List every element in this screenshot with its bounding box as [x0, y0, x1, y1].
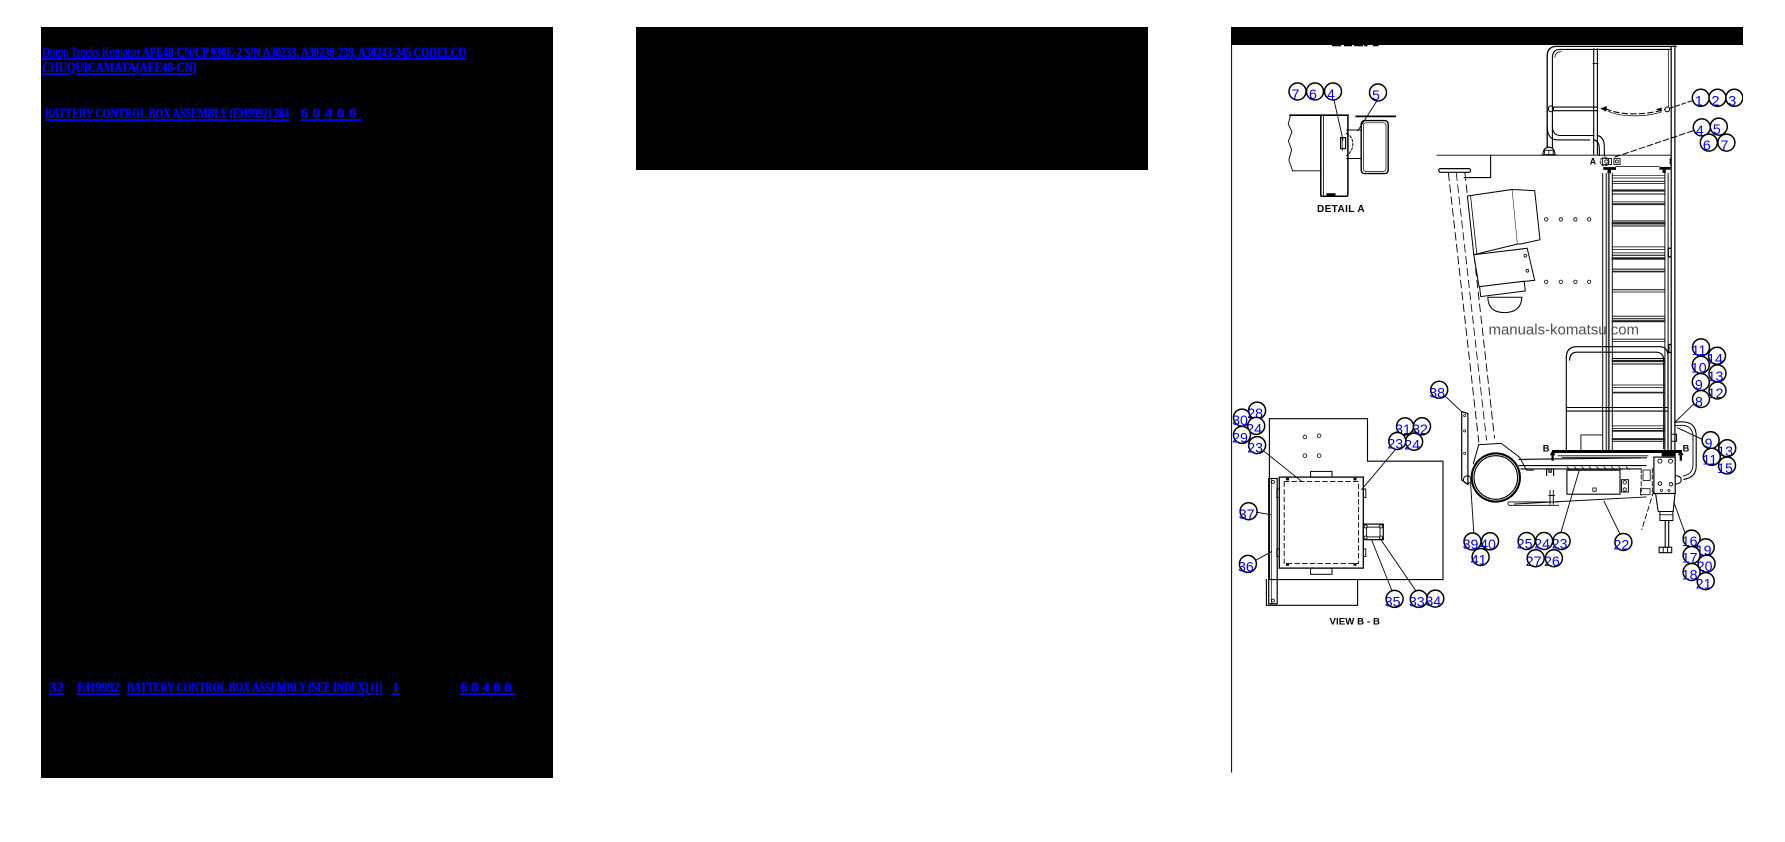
lower short beam [1509, 502, 1559, 505]
svg-text:22: 22 [1614, 538, 1630, 554]
A callout [1600, 157, 1609, 166]
balloon 18 [1682, 564, 1700, 584]
balloon 19 [1696, 539, 1714, 559]
balloon 8 [1693, 391, 1710, 411]
leader 35 [1372, 540, 1393, 591]
balloon 2 [1709, 89, 1726, 109]
deck line [1437, 154, 1671, 156]
box side clips [1277, 489, 1280, 557]
leader dashed from balloon 4 to detail A position [1614, 131, 1692, 157]
clipped title text sliver under bar [1332, 44, 1379, 46]
svg-text:B: B [1543, 444, 1550, 454]
svg-text:34: 34 [1425, 594, 1441, 610]
svg-text:36: 36 [1238, 560, 1254, 576]
leader to 39 [1470, 477, 1474, 534]
ladder rails [1603, 174, 1607, 451]
lower rail with bends [1552, 127, 1593, 136]
svg-text:6: 6 [1703, 138, 1711, 154]
section curve dashed with arrows [1606, 109, 1666, 114]
dashed vertical member [1641, 469, 1652, 496]
svg-text:29: 29 [1232, 431, 1248, 447]
svg-text:11: 11 [1702, 452, 1717, 468]
leader from 23 cluster (B-B) [1263, 450, 1302, 481]
balloon 6 [1700, 134, 1717, 154]
bolt dots row2 [1545, 280, 1548, 283]
page left border line [1231, 27, 1233, 772]
balloon 13 [1708, 365, 1726, 385]
balloon 7 [1718, 134, 1735, 154]
svg-text:3: 3 [1728, 93, 1736, 109]
balloon 22 [1614, 534, 1632, 554]
leader from lower 9 [1678, 428, 1703, 440]
balloon 5 [1370, 84, 1387, 104]
ladder right T-post [1659, 167, 1670, 170]
lower guardrail top rail [1566, 347, 1668, 449]
svg-text:6: 6 [1309, 87, 1317, 103]
deck bolt fitting [1545, 150, 1554, 154]
parts diagram svg [1231, 27, 1743, 800]
svg-text:manuals-komatsu.com: manuals-komatsu.com [1489, 322, 1640, 339]
leader from 38 [1445, 396, 1462, 412]
bolt dots row1 [1545, 218, 1548, 221]
link bottom row [49, 681, 64, 696]
jack leg [1656, 494, 1675, 512]
balloon 7 [1289, 83, 1306, 103]
link line 1-2: title [42, 46, 466, 61]
svg-text:VIEW B - B: VIEW B - B [1330, 616, 1381, 627]
leader 37 [1257, 512, 1271, 514]
svg-text:23: 23 [1247, 441, 1263, 457]
balloon 33 [1409, 590, 1427, 610]
step lines [1581, 435, 1603, 450]
balloon 17 [1682, 547, 1700, 567]
lower right corner rail [1675, 422, 1697, 480]
svg-text:15: 15 [1717, 461, 1733, 477]
balloon 1 [1692, 89, 1709, 109]
muffler box upper [1467, 190, 1517, 255]
middle image placeholder black box [636, 27, 1148, 170]
section arrows B [1550, 450, 1556, 461]
DETAIL A: bottom short line [1293, 170, 1321, 172]
balloon 29 [1232, 426, 1250, 446]
balloon 34 [1425, 590, 1443, 610]
balloon 26 [1544, 550, 1562, 570]
balloon 38 [1429, 381, 1447, 401]
balloon 35 [1385, 590, 1403, 610]
left mount strip (B-B) [1269, 479, 1278, 604]
balloon 13 [1717, 440, 1735, 460]
balloon 16 [1682, 530, 1700, 550]
DETAIL A: deck top line [1290, 114, 1348, 116]
balloon 9 [1702, 432, 1719, 452]
main beam [1519, 458, 1647, 469]
inner vertical post [1594, 49, 1598, 155]
link line 3 [45, 107, 289, 122]
balloon 27 [1526, 550, 1544, 570]
balloon 31 [1395, 418, 1413, 438]
svg-text:27: 27 [1526, 554, 1542, 570]
leader from 8 [1675, 403, 1695, 422]
balloon 32 [1412, 418, 1430, 438]
leader dashed to balloon 1 [1670, 100, 1694, 108]
balloon 9 [1692, 374, 1709, 394]
leader to 4 [1334, 100, 1343, 140]
exhaust stack slanted dashed lines [1448, 173, 1478, 442]
muffler box lower [1474, 248, 1535, 286]
svg-text:24: 24 [1404, 437, 1420, 453]
svg-text:23: 23 [1387, 437, 1403, 453]
balloon 37 [1239, 503, 1257, 523]
ladder assembly [1603, 166, 1675, 452]
svg-text:25: 25 [1517, 537, 1533, 553]
balloon 3 [1726, 89, 1743, 109]
mid rail [1553, 107, 1598, 111]
balloon 24 [1246, 417, 1264, 437]
collar above wheel [1473, 443, 1519, 464]
lower ladder T-handle [1439, 169, 1471, 173]
balloon 23 [1387, 433, 1405, 453]
B-B outer panel [1269, 419, 1443, 580]
battery box (B-B) [1279, 477, 1363, 568]
balloon 5 [1710, 118, 1727, 138]
right small bracket with bolts [1621, 480, 1628, 492]
hatch ticks [1567, 467, 1570, 470]
lower guardrail left post [1565, 357, 1567, 450]
ladder rungs [1613, 174, 1665, 176]
wheel motor housing [1470, 452, 1521, 503]
balloon 20 [1697, 555, 1715, 575]
svg-text:38: 38 [1429, 385, 1445, 401]
small bracket under beam [1549, 491, 1555, 505]
balloon 24 [1534, 533, 1552, 553]
DETAIL A: left panel [1321, 116, 1348, 196]
svg-text:41: 41 [1471, 553, 1487, 569]
svg-text:B: B [1683, 444, 1690, 454]
battery box mount frame [1567, 470, 1620, 494]
balloon 21 [1696, 573, 1714, 593]
DETAIL A: clamp bolt [1341, 138, 1346, 149]
deck thick line [1554, 450, 1681, 453]
svg-text:26: 26 [1544, 554, 1560, 570]
balloon 24 [1404, 433, 1422, 453]
right mount plate [1654, 457, 1675, 493]
balloon 25 [1517, 533, 1535, 553]
svg-text:5: 5 [1372, 88, 1380, 104]
spotlight dome [1488, 297, 1522, 312]
svg-text:7: 7 [1292, 87, 1300, 103]
leader to 5 [1358, 101, 1377, 131]
svg-text:8: 8 [1695, 395, 1703, 411]
B-B lower step [1266, 580, 1357, 606]
svg-text:21: 21 [1696, 577, 1712, 593]
leader from 22 [1604, 501, 1620, 534]
deck hole circles [1303, 435, 1307, 439]
top black banner bar [1231, 27, 1743, 45]
balloon 41 [1471, 549, 1489, 569]
DETAIL A: jagged break edge [1288, 116, 1292, 171]
leader 33/34 [1382, 541, 1417, 591]
post foot [1543, 147, 1555, 155]
svg-text:2: 2 [1712, 93, 1720, 109]
balloon 23 [1552, 533, 1570, 553]
rail bracket clips [1668, 248, 1670, 256]
balloon 36 [1238, 555, 1256, 575]
DETAIL A: right panel [1361, 121, 1388, 174]
svg-text:A: A [1590, 156, 1597, 166]
n-clip on beam [1547, 469, 1554, 475]
svg-text:37: 37 [1239, 507, 1255, 523]
ladder left T-post [1603, 167, 1616, 170]
muffler flange [1480, 281, 1526, 296]
balloon 30 [1232, 409, 1250, 429]
balloon 6 [1307, 83, 1324, 103]
leader from 16 [1674, 502, 1685, 534]
balloon 15 [1717, 457, 1735, 477]
leader 36 [1256, 552, 1272, 561]
svg-text:4: 4 [1327, 87, 1335, 103]
balloon 23 [1247, 437, 1265, 457]
support bracket strip left [1462, 412, 1468, 485]
upper handrail: inner corner curve [1555, 52, 1561, 57]
lower guardrail mid rail [1566, 408, 1668, 412]
right frame verticals [1671, 46, 1675, 166]
balloon 4 [1693, 119, 1710, 139]
balloon 12 [1708, 382, 1726, 402]
balloon 14 [1707, 347, 1725, 367]
platform step edge [1464, 155, 1490, 177]
svg-text:35: 35 [1385, 595, 1401, 611]
svg-text:1: 1 [1695, 93, 1703, 109]
leader from 23 cluster [1561, 471, 1580, 534]
balloon 40 [1480, 533, 1498, 553]
left image placeholder black box [41, 27, 553, 778]
balloon 11 [1692, 339, 1710, 359]
right frame continues [1671, 166, 1675, 452]
connector box (B-B) [1363, 524, 1383, 540]
leader from 23/24 right cluster (B-B) [1362, 450, 1396, 490]
svg-text:33: 33 [1409, 595, 1425, 611]
balloon 4 [1325, 83, 1342, 103]
upper handrail: outer left post and top rail [1547, 46, 1676, 147]
balloon 28 [1247, 402, 1265, 422]
lower slant line [1515, 497, 1647, 504]
svg-text:DETAIL A: DETAIL A [1317, 204, 1365, 215]
side pin tab [1675, 476, 1681, 485]
balloon 11 [1702, 448, 1720, 468]
balloon 10 [1691, 356, 1709, 376]
svg-text:7: 7 [1720, 138, 1728, 154]
DETAIL A: right deck line [1356, 115, 1395, 117]
balloon 39 [1463, 533, 1481, 553]
